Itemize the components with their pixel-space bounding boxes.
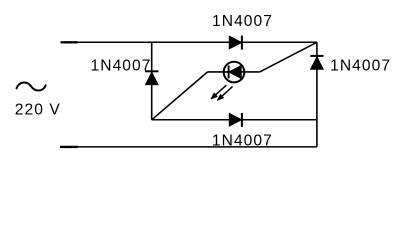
svg-text:1N4007: 1N4007	[212, 133, 273, 150]
LED cathode bar	[228, 66, 230, 79]
wire outer bottom horizontal	[60, 146, 317, 148]
LED emission arrow 1	[211, 85, 226, 99]
diode D3 right (points up)	[310, 56, 323, 69]
LED emission arrow 2	[218, 87, 233, 101]
wire diagonal LED to top-right corner	[260, 42, 317, 72]
svg-text:220 V: 220 V	[15, 102, 61, 119]
svg-text:1N4007: 1N4007	[91, 58, 152, 75]
wire diagonal lower-left to LED	[152, 72, 208, 120]
wire right vertical	[316, 42, 318, 147]
wire left vertical	[151, 42, 153, 120]
svg-text:1N4007: 1N4007	[212, 13, 273, 30]
wire horizontal through LED	[208, 71, 260, 73]
diode D1 top (points right)	[229, 36, 242, 50]
LED triangle (points left)	[229, 66, 241, 79]
LED circle	[224, 62, 245, 83]
wire top horizontal	[61, 41, 317, 43]
AC source symbol (sine wave)	[17, 83, 46, 91]
svg-text:1N4007: 1N4007	[330, 58, 391, 75]
diode D4 bottom (points right)	[229, 113, 242, 127]
diode D2 left (points up)	[145, 71, 158, 84]
wire inner bottom horizontal	[152, 119, 317, 121]
